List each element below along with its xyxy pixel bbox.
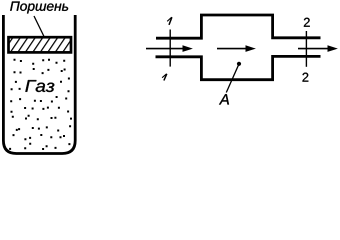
chamber flow arrow	[217, 45, 256, 52]
leader line from label А to chamber	[226, 65, 238, 93]
label 1 (top)	[167, 17, 172, 25]
cylinder vessel walls with rounded bottom	[3, 15, 75, 154]
label 2 (bottom)	[303, 73, 309, 82]
section line 2	[305, 31, 307, 67]
section line 1	[169, 30, 171, 67]
leader line from Поршень label to piston	[34, 16, 44, 37]
outlet flow arrow	[298, 45, 338, 52]
label 1 (bottom)	[162, 74, 167, 81]
flow tube outline: bottom contour	[156, 56, 321, 79]
flow tube outline: inlet pipe, chamber, outlet pipe (top contour)	[156, 15, 321, 38]
gas molecule dots	[9, 59, 72, 150]
label Поршень (piston)	[10, 2, 68, 14]
leader dot (node in chamber)	[237, 62, 241, 66]
label 2 (top)	[304, 18, 310, 27]
label А (chamber)	[219, 94, 229, 104]
label Газ (gas)	[25, 80, 54, 92]
inlet flow arrow	[146, 45, 193, 52]
piston (hatched)	[9, 37, 72, 52]
